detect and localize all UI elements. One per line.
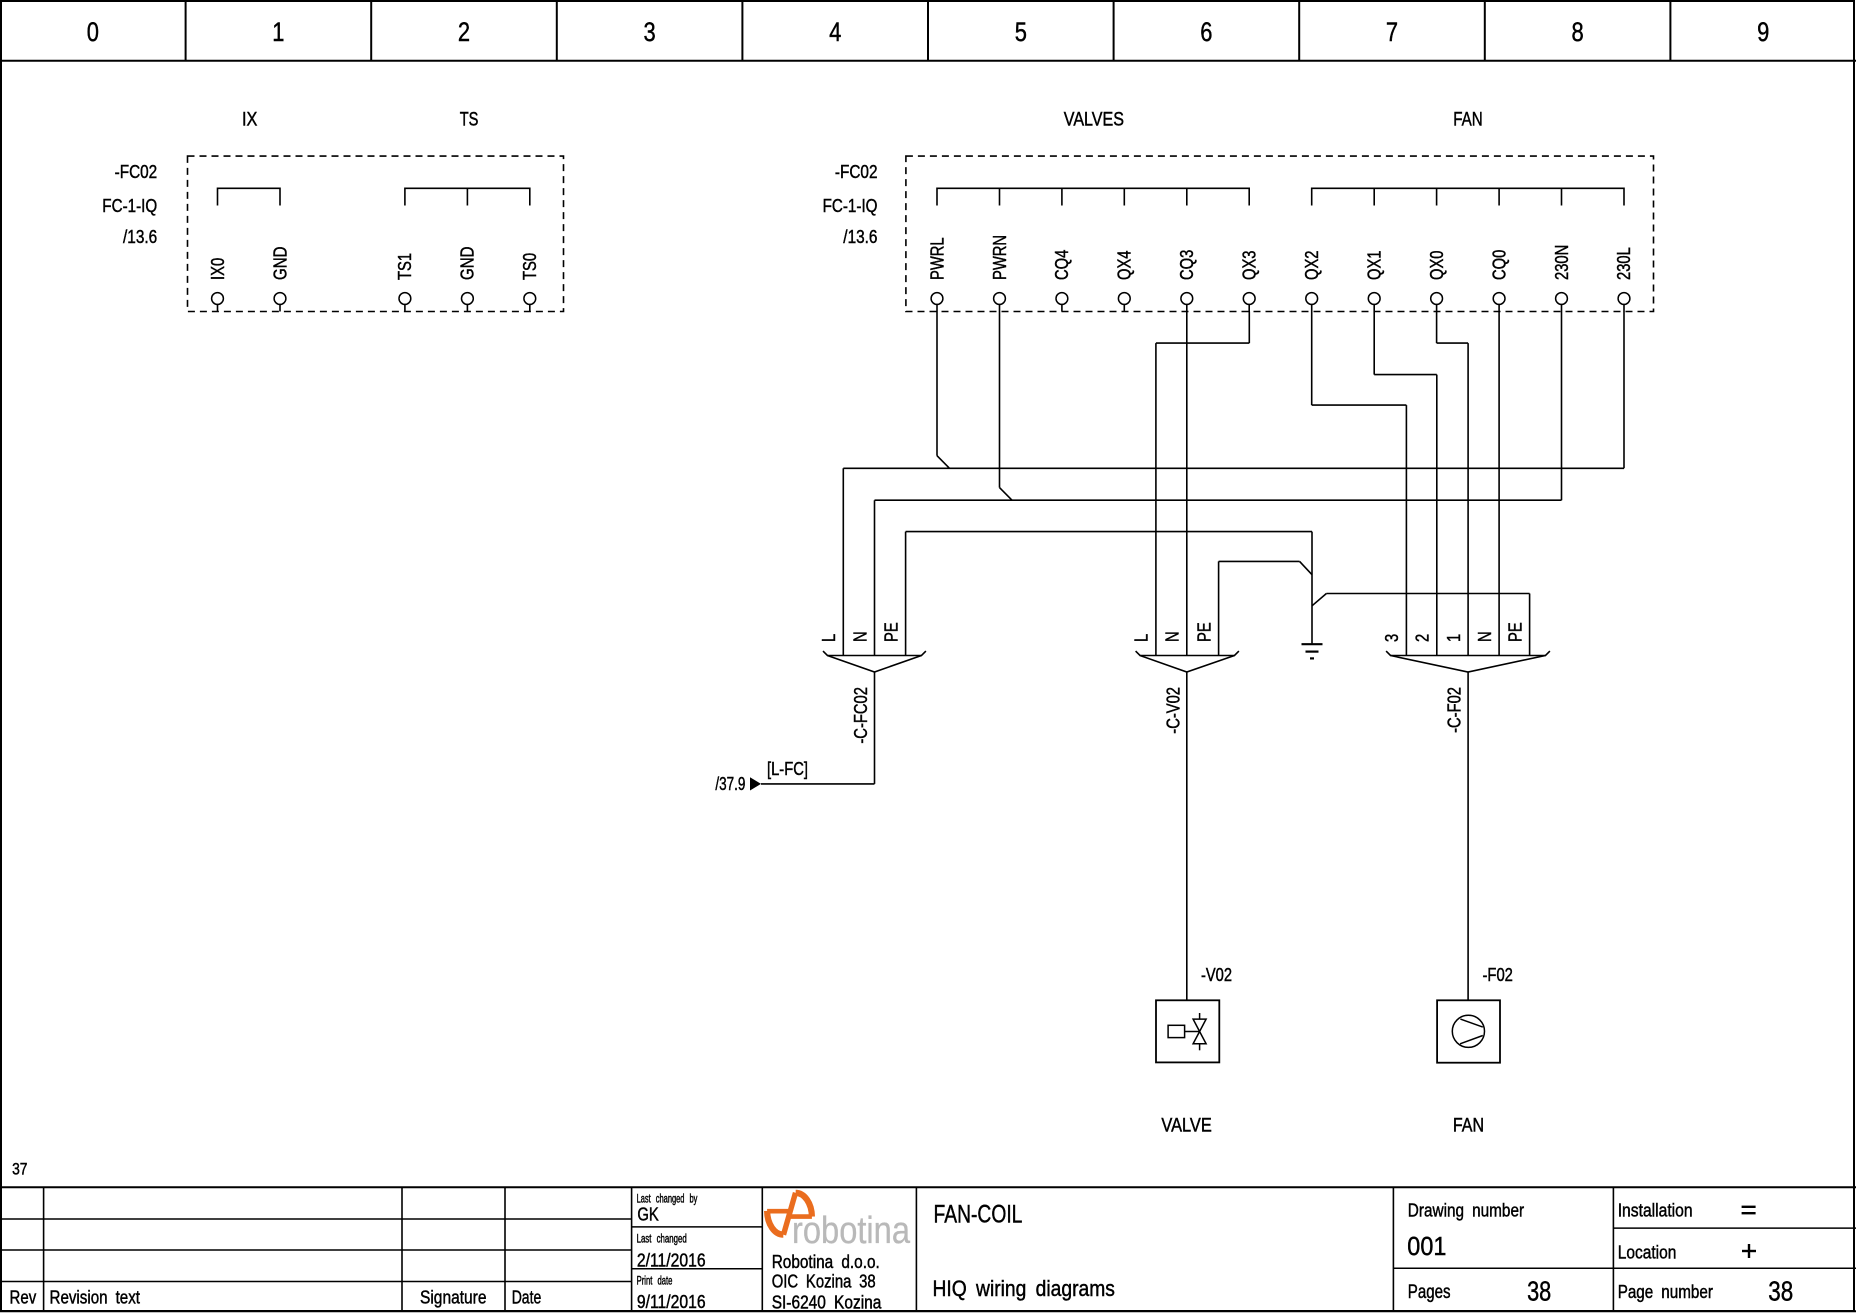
terminal QX1: [1365, 251, 1385, 312]
wire QX1 vertical: [1373, 312, 1375, 375]
dashed box -FC02 (IX / TS terminals): [188, 156, 564, 311]
terminal QX3: [1240, 251, 1260, 312]
svg-text:/37.9: /37.9: [715, 774, 745, 794]
svg-text:CQ4: CQ4: [1052, 250, 1072, 280]
wire -C-V02 PE horizontal: [1219, 560, 1300, 562]
svg-text:-C-V02: -C-V02: [1163, 687, 1183, 734]
svg-text:/13.6: /13.6: [843, 227, 877, 247]
svg-text:2/11/2016: 2/11/2016: [637, 1250, 706, 1270]
ruler divider 5: [927, 0, 929, 61]
wire N net horizontal: [875, 499, 1562, 501]
wire to -C-V02 pin PE: [1218, 561, 1220, 655]
svg-text:2: 2: [1413, 634, 1433, 642]
svg-text:-C-F02: -C-F02: [1445, 687, 1465, 733]
svg-text:-V02: -V02: [1201, 965, 1232, 985]
svg-text:GND: GND: [270, 247, 290, 281]
svg-text:Rev: Rev: [10, 1287, 37, 1307]
wire 230N vertical: [1561, 312, 1563, 501]
terminal IX0: [208, 258, 228, 312]
svg-text:PE: PE: [881, 622, 901, 642]
wire PWRN vertical: [999, 312, 1001, 488]
ruler divider 1: [185, 0, 187, 61]
svg-text:CQ3: CQ3: [1177, 250, 1197, 280]
location symbol +: [1742, 1244, 1756, 1258]
wire QX0 horizontal: [1437, 342, 1469, 344]
svg-text:Print date: Print date: [637, 1275, 673, 1287]
connector -C-F02: [1386, 651, 1550, 733]
fan -F02 symbol: [1437, 1000, 1500, 1062]
terminal CQ3: [1177, 250, 1197, 312]
ruler divider 9: [1669, 0, 1671, 61]
wire QX2 horizontal: [1312, 404, 1407, 406]
svg-text:3: 3: [1382, 634, 1402, 642]
svg-text:1: 1: [272, 17, 284, 47]
wire PWRN junction diagonal: [1000, 488, 1013, 501]
svg-text:38: 38: [1768, 1276, 1793, 1307]
svg-text:Date: Date: [512, 1287, 542, 1307]
ruler divider 7: [1298, 0, 1300, 61]
wire to -C-F02 pin PE: [1529, 594, 1531, 656]
svg-text:FC-1-IQ: FC-1-IQ: [823, 196, 878, 216]
svg-text:3: 3: [644, 17, 656, 47]
wire -C-V02 tail to valve: [1186, 672, 1188, 1000]
ruler divider 4: [741, 0, 743, 61]
svg-text:CQ0: CQ0: [1489, 250, 1509, 280]
svg-text:-FC02: -FC02: [115, 162, 158, 182]
title block grid: [0, 1187, 1856, 1311]
svg-text:SI-6240 Kozina: SI-6240 Kozina: [772, 1293, 883, 1313]
terminal PWRN: [990, 235, 1010, 312]
wire -C-V02 PE junction diagonal: [1300, 561, 1312, 574]
wire QX2 vertical: [1311, 312, 1313, 406]
svg-text:Pages: Pages: [1408, 1282, 1451, 1303]
wire CQ3 to -C-V02 pin N: [1186, 312, 1188, 656]
wire to -C-F02 pin 3: [1405, 405, 1407, 655]
wire PE down to ground: [1311, 532, 1313, 644]
svg-text:0: 0: [87, 17, 99, 47]
svg-text:TS1: TS1: [395, 253, 415, 280]
svg-text:GND: GND: [458, 247, 478, 281]
wire QX1 horizontal: [1374, 374, 1437, 376]
svg-text:37: 37: [12, 1160, 27, 1179]
svg-text:Robotina d.o.o.: Robotina d.o.o.: [772, 1252, 880, 1272]
svg-text:7: 7: [1386, 17, 1398, 47]
ground (PE earth symbol): [1302, 644, 1323, 658]
svg-text:QX1: QX1: [1365, 251, 1385, 281]
svg-text:001: 001: [1407, 1231, 1446, 1261]
svg-text:6: 6: [1200, 17, 1212, 47]
wire CQ0 to -C-F02 pin N: [1498, 312, 1500, 656]
svg-text:robotina: robotina: [792, 1210, 911, 1252]
svg-text:230L: 230L: [1614, 247, 1634, 280]
wire -C-F02 PE horizontal: [1326, 593, 1529, 595]
wire to -C-V02 pin L: [1155, 343, 1157, 655]
wire QX0 vertical: [1436, 312, 1438, 344]
wire QX3 vertical: [1248, 312, 1250, 344]
wire -C-F02 tail to fan: [1467, 672, 1469, 1000]
ruler divider 2: [370, 0, 372, 61]
ruler divider 8: [1484, 0, 1486, 61]
svg-text:5: 5: [1015, 17, 1027, 47]
svg-text:/13.6: /13.6: [123, 227, 157, 247]
svg-text:N: N: [1475, 631, 1495, 642]
svg-text:L: L: [1132, 634, 1152, 642]
svg-text:QX0: QX0: [1427, 251, 1447, 281]
installation symbol =: [1742, 1207, 1756, 1213]
svg-text:Drawing number: Drawing number: [1408, 1201, 1524, 1221]
svg-text:GK: GK: [637, 1204, 658, 1224]
svg-text:QX4: QX4: [1115, 251, 1135, 281]
wire to -C-F02 pin 1: [1467, 343, 1469, 655]
wire -C-FC02 tail vertical: [874, 672, 876, 784]
ruler divider 6: [1113, 0, 1115, 61]
svg-text:PE: PE: [1194, 622, 1214, 642]
wire to -C-F02 pin 2: [1436, 375, 1438, 656]
connector -C-FC02: [823, 651, 926, 744]
Robotina logo (orange ribbon): [767, 1193, 812, 1235]
terminal TS1: [395, 253, 415, 312]
svg-text:4: 4: [829, 17, 841, 47]
svg-text:FAN-COIL: FAN-COIL: [934, 1200, 1023, 1228]
svg-text:Signature: Signature: [420, 1287, 487, 1307]
svg-text:9: 9: [1757, 17, 1769, 47]
terminal PWRL: [927, 237, 947, 311]
dashed box -FC02 (VALVES / FAN terminals): [906, 156, 1654, 311]
svg-text:VALVE: VALVE: [1161, 1115, 1211, 1136]
interruption arrow /37.9: [750, 777, 761, 790]
terminal TS0: [520, 253, 540, 312]
svg-text:PWRN: PWRN: [990, 235, 1010, 280]
svg-text:HIQ wiring diagrams: HIQ wiring diagrams: [933, 1276, 1115, 1301]
svg-text:8: 8: [1572, 17, 1584, 47]
svg-text:PWRL: PWRL: [927, 237, 947, 280]
wire PE net horizontal: [906, 531, 1312, 533]
svg-text:VALVES: VALVES: [1064, 109, 1124, 130]
svg-text:N: N: [1163, 631, 1183, 642]
svg-text:L: L: [819, 634, 839, 642]
svg-text:9/11/2016: 9/11/2016: [637, 1292, 706, 1312]
ruler bottom line: [0, 60, 1856, 62]
svg-text:PE: PE: [1505, 622, 1525, 642]
wire to -C-FC02 pin N: [874, 500, 876, 655]
terminal QX2: [1302, 251, 1322, 312]
wire 230L vertical: [1623, 312, 1625, 469]
svg-text:-FC02: -FC02: [835, 162, 878, 182]
svg-text:IX0: IX0: [208, 258, 228, 280]
wire PWRL vertical: [936, 312, 938, 456]
svg-text:1: 1: [1444, 634, 1464, 642]
svg-text:TS: TS: [460, 109, 479, 130]
svg-text:2: 2: [458, 17, 470, 47]
svg-text:Page number: Page number: [1618, 1282, 1713, 1302]
svg-text:-F02: -F02: [1483, 965, 1513, 985]
svg-text:Installation: Installation: [1618, 1201, 1693, 1221]
wire QX3 horizontal: [1156, 342, 1249, 344]
svg-text:FAN: FAN: [1453, 109, 1483, 130]
bracket TS group: [405, 188, 530, 205]
wire to -C-FC02 pin PE: [905, 532, 907, 656]
wire -C-F02 PE junction diagonal: [1312, 594, 1326, 606]
svg-text:Revision text: Revision text: [50, 1287, 141, 1307]
terminal QX0: [1427, 251, 1447, 312]
svg-text:-C-FC02: -C-FC02: [851, 687, 871, 744]
ruler divider 3: [556, 0, 558, 61]
svg-text:N: N: [850, 631, 870, 642]
svg-text:FAN: FAN: [1453, 1115, 1484, 1136]
svg-text:TS0: TS0: [520, 253, 540, 280]
bracket IX group: [218, 188, 281, 205]
svg-text:QX3: QX3: [1240, 251, 1260, 281]
svg-text:230N: 230N: [1552, 245, 1572, 280]
svg-text:Location: Location: [1618, 1243, 1677, 1263]
svg-text:Last changed: Last changed: [637, 1234, 687, 1246]
svg-text:[L-FC]: [L-FC]: [767, 759, 808, 779]
terminal CQ4: [1052, 250, 1072, 312]
wire to interruption point [L-FC]: [761, 783, 875, 785]
wire PWRL junction diagonal: [937, 456, 950, 469]
connector -C-V02: [1136, 651, 1239, 734]
bracket VALVES group: [937, 188, 1249, 205]
terminal GND: [458, 247, 478, 312]
terminal 230L: [1614, 247, 1634, 311]
terminal QX4: [1115, 251, 1135, 312]
valve -V02 symbol: [1156, 1000, 1219, 1062]
terminal GND: [270, 247, 290, 312]
svg-text:FC-1-IQ: FC-1-IQ: [102, 196, 157, 216]
svg-text:IX: IX: [242, 109, 258, 130]
wire L net horizontal: [843, 467, 1624, 469]
bracket FAN group: [1312, 188, 1624, 205]
terminal 230N: [1552, 245, 1572, 312]
svg-text:QX2: QX2: [1302, 251, 1322, 281]
terminal CQ0: [1489, 250, 1509, 312]
wire to -C-FC02 pin L: [842, 468, 844, 655]
svg-text:OIC Kozina 38: OIC Kozina 38: [772, 1272, 876, 1292]
svg-text:38: 38: [1527, 1276, 1551, 1307]
